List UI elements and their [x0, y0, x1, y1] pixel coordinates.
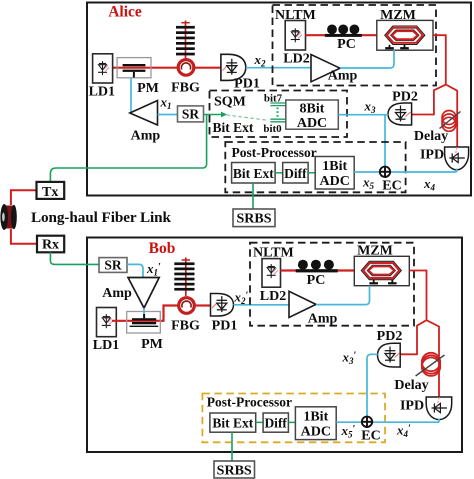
svg-text:Post-Processor: Post-Processor: [232, 145, 317, 160]
wire blue ADC1 to EC to IPD x4: [354, 169, 456, 173]
fiber Bragg grating FBG (Alice): [178, 60, 194, 76]
label LD1 (Alice): [89, 85, 115, 100]
node x2p label: [234, 290, 249, 307]
label Amp NLTM (Alice): [328, 69, 358, 84]
wire blue ADC1 to EC to IPD x4p (Bob): [336, 419, 439, 423]
wire red FBG to PD1 (Bob): [195, 304, 211, 306]
svg-text:PC: PC: [337, 37, 356, 52]
wire green BitExt to SRBS (Alice): [252, 183, 254, 209]
wire red MZM output junction Y (Bob): [400, 271, 439, 398]
block Rx: [37, 236, 64, 253]
op-amp Amp NLTM (Bob): [289, 291, 316, 317]
inverted photodiode IPD (Alice): [445, 147, 469, 170]
node x5p label: [341, 423, 356, 440]
svg-text:PM: PM: [141, 337, 163, 352]
delay fiber coil Delay (Bob): [416, 353, 445, 376]
svg-text:Bob: Bob: [149, 240, 176, 257]
wire green Rx to Bob SR: [50, 252, 99, 264]
label IPD (Alice): [420, 148, 444, 163]
svg-text:SR: SR: [182, 106, 200, 121]
block SRBS (Alice): [233, 209, 275, 227]
wire green BitExt to SRBS (Bob): [231, 432, 233, 461]
photodiode PD2 (Bob): [378, 343, 401, 367]
label LD1 (Bob): [93, 338, 119, 353]
fiber spool: [0, 204, 16, 230]
label NLTM (Bob): [253, 246, 294, 261]
label FBG (Alice): [171, 81, 200, 96]
wire blue PD2 to EC x3p (Bob): [367, 354, 378, 417]
laser diode LD2 (Bob): [262, 259, 281, 288]
svg-text:Diff: Diff: [284, 166, 307, 181]
svg-text:Post-Processor: Post-Processor: [207, 395, 292, 410]
node x1p label: [146, 261, 161, 278]
label PD1 (Alice): [234, 77, 260, 92]
green dotted bits ellipsis: [277, 108, 279, 118]
wire red spool to Rx: [11, 229, 37, 244]
block SR (Bob): [99, 257, 127, 272]
svg-text:ADC: ADC: [320, 174, 350, 189]
green arrow head into SQM: [221, 112, 227, 118]
wire blue PM to Amp (Alice): [130, 78, 132, 112]
svg-text:8Bit: 8Bit: [300, 101, 325, 116]
label IPD (Bob): [400, 399, 424, 414]
label Bit Ext SQM: [213, 120, 254, 135]
svg-text:MZM: MZM: [357, 244, 393, 259]
svg-text:1Bit: 1Bit: [303, 409, 328, 424]
wire blue x3 ADC to PD2 and down to EC: [338, 115, 388, 167]
label bit0: [263, 123, 282, 135]
wire green BitExt to Diff: [275, 172, 283, 174]
svg-text:Diff: Diff: [264, 416, 287, 431]
block Tx: [37, 182, 65, 200]
label PD1 (Bob): [212, 319, 238, 334]
svg-text:FBG: FBG: [171, 319, 200, 334]
wire green SR to SQM with junction to Tx: [50, 115, 222, 182]
label Amp (Alice): [131, 129, 161, 144]
label PC (Bob): [307, 273, 326, 288]
label EC (Alice): [382, 179, 401, 194]
svg-text:PM: PM: [137, 81, 159, 96]
photodiode PD2 (Alice): [388, 103, 412, 125]
svg-text:Amp: Amp: [308, 312, 338, 327]
delay fiber coil Delay (Alice): [440, 111, 461, 132]
label PC (Alice): [337, 37, 356, 52]
svg-text:Bit Ext: Bit Ext: [212, 416, 253, 431]
svg-text:IPD: IPD: [420, 148, 444, 163]
inverted photodiode IPD (Bob): [426, 397, 452, 420]
node x3 label: [364, 99, 377, 116]
svg-text:IPD: IPD: [400, 399, 424, 414]
photodiode PD1 (Alice): [221, 54, 246, 80]
svg-text:PD1: PD1: [212, 319, 238, 334]
label Amp (Bob): [102, 286, 132, 301]
wires green bit0 pair: [270, 119, 287, 122]
node x4p label: [396, 423, 411, 440]
wire red MZM output junction Y (Alice): [412, 35, 457, 147]
label Bob: [149, 240, 176, 257]
svg-text:PC: PC: [307, 273, 326, 288]
wire blue Amp to MZM (Bob): [316, 286, 370, 305]
block SR (Alice): [178, 106, 204, 122]
label SQM: [214, 95, 246, 110]
svg-text:MZM: MZM: [380, 8, 416, 23]
svg-text:EC: EC: [382, 179, 401, 194]
ADC 1bit box (Bob): [295, 407, 336, 440]
svg-text:Long-haul Fiber Link: Long-haul Fiber Link: [31, 209, 172, 226]
svg-text:Bit Ext: Bit Ext: [233, 166, 274, 181]
label PM (Bob): [141, 337, 163, 352]
wire green dashed to bit0: [227, 115, 269, 120]
Post-Processor dashed box (Bob): [202, 394, 385, 443]
label Alice: [108, 4, 142, 21]
svg-text:Tx: Tx: [42, 185, 58, 200]
wire green BitExt to Diff (Bob): [256, 421, 263, 423]
wire red LD2 to MZM: [306, 34, 378, 36]
svg-text:LD1: LD1: [89, 85, 115, 100]
svg-text:Alice: Alice: [108, 4, 142, 21]
adder EC (Alice): [380, 167, 390, 177]
svg-text:PD2: PD2: [392, 90, 418, 105]
block Bit Ext (Alice): [232, 163, 276, 184]
NLTM dashed box (Alice): [273, 5, 437, 86]
label PD2 (Alice): [392, 90, 418, 105]
svg-text:LD2: LD2: [260, 289, 286, 304]
wire blue Amp to MZM (Alice): [340, 50, 394, 68]
label NLTM (Alice): [275, 8, 316, 23]
wire blue SR to Amp x1: [158, 114, 178, 116]
Alice enclosure box: [87, 3, 471, 196]
laser diode LD1 (Bob): [97, 308, 117, 337]
label Delay (Bob): [394, 378, 428, 393]
block Bit Ext (Bob): [210, 413, 256, 432]
fiber grating comb (Bob): [174, 258, 194, 297]
wire blue x2 PD1 to NLTM Amp: [246, 67, 311, 69]
label Post-Processor (Alice): [232, 145, 317, 160]
svg-text:LD1: LD1: [93, 338, 119, 353]
svg-text:Amp: Amp: [102, 286, 132, 301]
node x4 label: [423, 176, 436, 193]
fiber grating comb (Alice): [176, 21, 195, 59]
node x2 label: [254, 52, 267, 69]
label PD2 (Bob): [377, 329, 403, 344]
svg-text:SRBS: SRBS: [236, 211, 271, 226]
op-amp Amp (Alice): [130, 101, 158, 126]
ADC 8bit box (Alice): [286, 100, 339, 131]
node x1 label: [160, 95, 172, 112]
label LD2 (Alice): [283, 52, 309, 67]
wire blue SR to Amp x1p: [127, 264, 143, 277]
Mach-Zehnder modulator MZM (Bob): [354, 256, 409, 285]
svg-text:Rx: Rx: [42, 237, 59, 252]
photodiode PD1 (Bob): [211, 294, 234, 317]
ADC 1bit box (Alice): [315, 157, 354, 190]
wire green Diff to ADC1 (Bob): [288, 421, 295, 423]
svg-text:1Bit: 1Bit: [322, 159, 347, 174]
wires green bit7 pair: [270, 103, 287, 106]
wire red LD2 to MZM (Bob): [281, 269, 355, 271]
block Diff (Bob): [263, 413, 288, 432]
svg-text:PD1: PD1: [234, 77, 260, 92]
polarization controller PC (Alice): [325, 25, 362, 37]
op-amp Amp (Bob): [128, 278, 159, 309]
svg-text:SQM: SQM: [214, 95, 246, 110]
wire red LD1 through PM jog to FBG (Bob): [112, 306, 178, 321]
label Delay (Alice): [414, 129, 448, 144]
block Diff (Alice): [283, 163, 308, 184]
svg-text:Bit Ext: Bit Ext: [213, 120, 254, 135]
phase modulator PM (Bob): [127, 312, 161, 334]
svg-text:EC: EC: [361, 429, 380, 444]
wire red Tx to fiber spool: [11, 190, 37, 205]
label Long-haul Fiber Link: [31, 209, 172, 226]
block SRBS (Bob): [214, 461, 255, 479]
svg-text:Delay: Delay: [394, 378, 428, 393]
label PM (Alice): [137, 81, 159, 96]
label LD2 (Bob): [260, 289, 286, 304]
wire red LD1 to PD1 optical: [108, 67, 221, 69]
phase modulator PM (Alice): [117, 58, 151, 78]
polarization controller PC (Bob): [296, 260, 338, 273]
label MZM (Alice): [380, 8, 416, 23]
svg-text:Amp: Amp: [328, 69, 358, 84]
laser diode LD2 (Alice): [285, 21, 305, 51]
svg-text:FBG: FBG: [171, 81, 200, 96]
NLTM dashed box (Bob): [250, 243, 414, 326]
svg-text:bit0: bit0: [263, 123, 282, 135]
svg-text:Amp: Amp: [131, 129, 161, 144]
label Post-Processor (Bob): [207, 395, 292, 410]
svg-text:ADC: ADC: [301, 424, 331, 439]
fiber Bragg grating FBG (Bob): [179, 298, 195, 314]
svg-text:PD2: PD2: [377, 329, 403, 344]
node x3p label: [342, 350, 357, 367]
adder EC (Bob): [362, 417, 372, 427]
svg-text:SRBS: SRBS: [217, 464, 252, 479]
label bit7: [264, 92, 283, 104]
Bob enclosure box: [87, 238, 462, 453]
svg-text:Delay: Delay: [414, 129, 448, 144]
label Amp NLTM (Bob): [308, 312, 338, 327]
SQM dashed box (Alice): [210, 91, 348, 138]
wire green Diff to ADC1: [308, 172, 315, 174]
label MZM (Bob): [357, 244, 393, 259]
svg-text:LD2: LD2: [283, 52, 309, 67]
Post-Processor dashed box (Alice): [225, 142, 405, 192]
laser diode LD1 (Alice): [93, 54, 113, 83]
op-amp Amp NLTM (Alice): [311, 55, 340, 82]
label EC (Bob): [361, 429, 380, 444]
svg-text:SR: SR: [104, 257, 122, 272]
label FBG (Bob): [171, 319, 200, 334]
svg-text:ADC: ADC: [297, 116, 327, 131]
Mach-Zehnder modulator MZM (Alice): [377, 20, 433, 50]
node x5 label: [362, 175, 375, 192]
wire blue x2p PD1 to Amp (Bob): [234, 304, 290, 306]
wire blue Amp to PM (Bob): [143, 308, 145, 315]
